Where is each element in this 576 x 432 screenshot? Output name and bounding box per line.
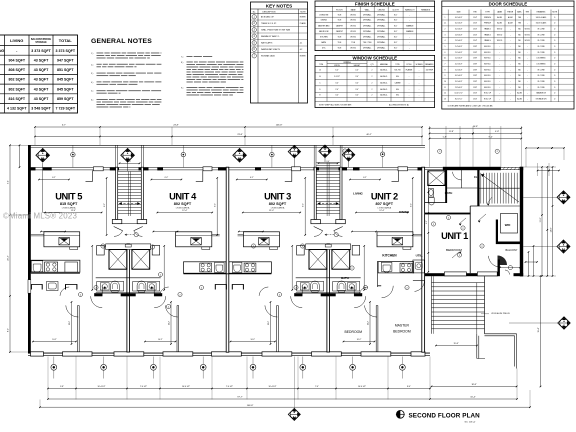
- svg-text:DRYWALL: DRYWALL: [377, 30, 385, 33]
- svg-text:MATL: MATL: [517, 11, 522, 14]
- svg-text:LIVING AREA: LIVING AREA: [62, 207, 76, 210]
- svg-text:10'-4 1/2": 10'-4 1/2": [269, 386, 277, 388]
- svg-text:14'-8": 14'-8": [551, 227, 553, 232]
- svg-text:WOOD: WOOD: [525, 34, 531, 36]
- svg-text:SECOND FLOOR PLAN: SECOND FLOOR PLAN: [409, 412, 481, 419]
- svg-text:INTERI: INTERI: [300, 56, 306, 58]
- unit1 leader arrows: [459, 218, 466, 224]
- kitchen island at x=243.4: [238, 232, 280, 250]
- svg-text:3'-0": 3'-0": [335, 82, 339, 84]
- plumbing blockout between showers: [125, 244, 131, 247]
- svg-text:DESCRIPTION: DESCRIPTION: [263, 11, 277, 13]
- svg-text:3 548 SQFT: 3 548 SQFT: [31, 107, 51, 111]
- vanity counters with sinks and toilets: [296, 277, 361, 279]
- svg-text:UNIT 4: UNIT 4: [169, 192, 197, 202]
- svg-text:TOTAL: TOTAL: [59, 38, 73, 43]
- svg-text:W. CORE: W. CORE: [537, 34, 545, 36]
- svg-text:BATH: BATH: [445, 191, 453, 195]
- svg-text:FINISH SCHEDULE: FINISH SCHEDULE: [355, 1, 395, 6]
- svg-text:3'-0": 3'-0": [355, 95, 359, 97]
- section marker at (127.6,155.2): [121, 148, 135, 162]
- balcony door dark fan: [498, 256, 508, 266]
- bedroom partition walls with door arcs: [60, 287, 378, 352]
- window schedule table: [315, 55, 435, 107]
- small dims above unit1 right: [526, 147, 538, 149]
- svg-text:845 SQFT: 845 SQFT: [57, 78, 74, 82]
- keynote circle 4: [252, 34, 256, 38]
- left exterior wall with window: [28, 145, 31, 279]
- unit 5 kitchen counters: [31, 260, 80, 289]
- svg-text:SCREEN: SCREEN: [416, 64, 424, 66]
- tick cluster at unit1 top right corner: [538, 170, 549, 172]
- tiny dims beside core: [291, 246, 293, 290]
- svg-text:8'-0": 8'-0": [394, 31, 398, 33]
- svg-text:8.): 8.): [181, 62, 184, 64]
- svg-text:23'-8": 23'-8": [237, 134, 243, 136]
- bottom porch edge with column footers: [28, 351, 430, 353]
- svg-text:1 3/8": 1 3/8": [473, 87, 478, 89]
- svg-text:13: 13: [444, 99, 446, 101]
- shower boxes: [109, 250, 127, 270]
- keynote circle 2: [438, 149, 442, 153]
- balcony: [498, 260, 500, 277]
- svg-text:2'-8"x6'-8": 2'-8"x6'-8": [455, 87, 463, 89]
- svg-text:23'-8": 23'-8": [173, 125, 179, 127]
- keynote circle 2: [158, 272, 162, 276]
- section marker at (348.6,154.8): [342, 149, 354, 161]
- svg-text:5'-8": 5'-8": [443, 136, 447, 138]
- svg-text:BI-FOLD: BI-FOLD: [484, 52, 491, 54]
- svg-text:JAMB: JAMB: [497, 11, 503, 14]
- keynote circle 2: [150, 245, 154, 249]
- svg-text:4-1: 4-1: [300, 43, 303, 45]
- section marker at (563.5,246.5): [557, 240, 570, 253]
- u3 range: [244, 263, 256, 272]
- porch column circle marker: [72, 146, 74, 168]
- svg-text:43 SQFT: 43 SQFT: [34, 68, 49, 72]
- svg-text:W. CORE: W. CORE: [537, 46, 545, 48]
- svg-text:8'-4": 8'-4": [407, 386, 411, 388]
- white sill bars on top wall: [93, 167, 103, 171]
- svg-text:MASTER: MASTER: [395, 324, 410, 328]
- keynote circle 2: [101, 244, 105, 248]
- keynote circle 2: [461, 226, 465, 230]
- svg-text:DOORS ARE HURRICANE 4 CODE CAT: DOORS ARE HURRICANE 4 CODE CAT. 1 HO-305…: [448, 104, 493, 107]
- center party wall (double line): [127, 244, 130, 352]
- svg-text:SGL: SGL: [396, 95, 399, 97]
- right dimension lines for unit1: [523, 166, 556, 387]
- keynote circle 2: [350, 266, 354, 270]
- svg-text:8'-0": 8'-0": [394, 42, 398, 44]
- vanity counters with sinks and toilets: [96, 277, 161, 279]
- center party wall (double line): [327, 244, 330, 352]
- svg-text:FLOOR: FLOOR: [336, 9, 343, 11]
- svg-text:BI-FOLD: BI-FOLD: [484, 46, 491, 48]
- column footers at bottom: [31, 352, 44, 356]
- svg-text:1 3/4": 1 3/4": [473, 29, 478, 31]
- keynote circle 2: [300, 244, 304, 248]
- door stubs below kitchens: [214, 284, 216, 289]
- svg-text:3'-0"x6'-8": 3'-0"x6'-8": [455, 29, 463, 31]
- unit1 bottom wall: [425, 273, 498, 276]
- svg-text:11: 11: [444, 87, 446, 89]
- svg-text:9: 9: [445, 75, 446, 77]
- svg-text:815 SQFT: 815 SQFT: [60, 202, 78, 206]
- left dimension lines: [8, 145, 28, 353]
- svg-text:802 SQFT: 802 SQFT: [8, 78, 25, 82]
- unit1 closet CL: [461, 170, 463, 188]
- keynote circle 7: [252, 54, 256, 58]
- svg-text:ROLL UP: ROLL UP: [484, 93, 491, 95]
- svg-text:3'-0": 3'-0": [355, 89, 359, 91]
- svg-text:12'-4": 12'-4": [182, 210, 187, 212]
- svg-text:947 SQFT: 947 SQFT: [57, 58, 74, 62]
- svg-text:WOOD: WOOD: [350, 25, 356, 27]
- svg-text:3'-6": 3'-6": [326, 161, 330, 163]
- keynote circle 2: [78, 292, 82, 296]
- svg-text:REMARKS: REMARKS: [537, 11, 546, 14]
- svg-text:DRYWALL: DRYWALL: [363, 24, 371, 27]
- svg-text:DRYWALL: DRYWALL: [363, 13, 371, 16]
- svg-text:8'-0": 8'-0": [394, 20, 398, 22]
- keynote circle 2: [251, 244, 255, 248]
- keynote circle 2: [363, 285, 367, 289]
- svg-text:808 SQFT: 808 SQFT: [8, 68, 25, 72]
- svg-text:BALCONY: BALCONY: [506, 249, 518, 252]
- svg-text:CARPET: CARPET: [336, 30, 344, 33]
- svg-text:802 SQFT: 802 SQFT: [174, 202, 192, 206]
- svg-text:2'-8"x6'-8": 2'-8"x6'-8": [455, 34, 463, 36]
- svg-text:WOOD: WOOD: [497, 34, 503, 36]
- bath band bottom wall: [94, 293, 102, 296]
- top porch edge double line: [28, 144, 425, 146]
- svg-text:GENERAL NOTES: GENERAL NOTES: [91, 38, 152, 45]
- kitchen island at x=175.6: [176, 232, 220, 250]
- svg-text:3'-0"x6'-8": 3'-0"x6'-8": [455, 81, 463, 83]
- svg-text:1 3/4": 1 3/4": [473, 23, 478, 25]
- svg-text:6'-0"x6'-8": 6'-0"x6'-8": [455, 23, 463, 25]
- svg-text:845 SQFT: 845 SQFT: [57, 87, 74, 91]
- keynote circle 2: [446, 215, 450, 219]
- svg-text:W. CORE: W. CORE: [537, 40, 545, 42]
- svg-text:1 3/8": 1 3/8": [473, 46, 478, 48]
- general notes block: [91, 38, 243, 107]
- svg-text:18'-8": 18'-8": [471, 384, 476, 386]
- shower boxes: [309, 250, 327, 270]
- svg-text:WAT SCAFTS: WAT SCAFTS: [261, 42, 273, 45]
- unit 2 kitchen + util: [378, 254, 425, 298]
- svg-text:PLANS: PLANS: [300, 22, 307, 25]
- svg-text:MASTER BED: MASTER BED: [318, 24, 330, 27]
- svg-text:CLG HT: CLG HT: [392, 9, 399, 11]
- svg-text:1 3/4": 1 3/4": [473, 93, 478, 95]
- svg-text:1 3/4": 1 3/4": [473, 17, 478, 19]
- porch column circle marker: [182, 146, 184, 168]
- svg-text:4.): 4.): [91, 82, 94, 84]
- svg-text:1 3/8": 1 3/8": [473, 75, 478, 77]
- svg-text:KITCHEN: KITCHEN: [382, 254, 397, 258]
- section marker at (294.4,151.6): [288, 145, 300, 157]
- svg-text:2'-0"x6'-8": 2'-0"x6'-8": [455, 52, 463, 54]
- svg-text:4: 4: [445, 40, 446, 42]
- svg-text:9'-2": 9'-2": [104, 203, 106, 207]
- svg-text:6'-7": 6'-7": [62, 125, 66, 127]
- svg-text:11'-2": 11'-2": [69, 321, 71, 326]
- keynote circle 6: [252, 47, 256, 51]
- unit1 interior stair: [477, 170, 520, 206]
- bath core at cx=328.2: [291, 227, 366, 353]
- svg-text:6'-0"x6'-8": 6'-0"x6'-8": [455, 17, 463, 19]
- svg-text:W. CORE: W. CORE: [537, 29, 545, 31]
- svg-text:7 729 SQFT: 7 729 SQFT: [55, 107, 75, 111]
- unit 4/3 divider wall (double line): [226, 167, 229, 352]
- keynote circle with dashed leader: [134, 233, 138, 237]
- svg-text:2: 2: [372, 76, 373, 78]
- svg-text:AS NOASD. UF.: AS NOASD. UF.: [261, 16, 275, 19]
- svg-text:8'-0": 8'-0": [8, 328, 10, 332]
- svg-text:KITCHEN: KITCHEN: [320, 37, 328, 39]
- svg-text:DRYWALL: DRYWALL: [377, 47, 385, 50]
- unit 4/3 back-to-back kitchens: [184, 262, 272, 290]
- stairwell top inner dims: [319, 162, 338, 164]
- section marker at (239.6,155.2): [233, 148, 247, 162]
- svg-text:DRYWALL: DRYWALL: [363, 47, 371, 50]
- svg-text:2: 2: [372, 69, 373, 71]
- svg-text:LIVING AREA: LIVING AREA: [271, 207, 285, 210]
- svg-text:10'-2": 10'-2": [158, 339, 163, 341]
- svg-text:5'-8": 5'-8": [60, 386, 64, 388]
- svg-text:4'-8": 4'-8": [495, 131, 499, 133]
- svg-text:INTERI: INTERI: [300, 17, 306, 19]
- svg-text:BI-FOLD: BI-FOLD: [484, 69, 491, 71]
- svg-text:2: 2: [445, 29, 446, 31]
- keynote circle 2: [431, 222, 435, 226]
- svg-text:8'-0": 8'-0": [394, 48, 398, 50]
- svg-text:NG: NG: [0, 49, 4, 53]
- svg-text:8: 8: [445, 69, 446, 71]
- svg-text:3: 3: [445, 34, 446, 36]
- svg-text:43 SQFT: 43 SQFT: [34, 87, 49, 91]
- section marker at (294.3,414.4): [288, 408, 300, 420]
- keynote circle 1: [252, 15, 256, 19]
- svg-text:TRASS 30 C.S. ST.: TRASS 30 C.S. ST.: [261, 22, 277, 25]
- kitchen island at x=43.9: [31, 232, 80, 250]
- porch column circle marker: [271, 146, 273, 168]
- svg-text:9'-2": 9'-2": [303, 203, 305, 207]
- tiny dims beside core: [91, 246, 93, 290]
- svg-text:6: 6: [445, 52, 446, 54]
- bath entry doors from stair landing: [314, 227, 323, 231]
- unit 5 side fixture near left wall: [47, 282, 59, 291]
- svg-text:BEDROOM: BEDROOM: [393, 330, 411, 334]
- sink: [31, 261, 42, 272]
- svg-text:7'-4 1/2": 7'-4 1/2": [226, 386, 233, 388]
- hall/closet stub walls below top wall: [86, 170, 399, 181]
- svg-text:HEIGHT: HEIGHT: [354, 65, 360, 67]
- svg-text:WOOD ALUM. TRELLIS: WOOD ALUM. TRELLIS: [491, 312, 510, 315]
- svg-text:WOOD: WOOD: [350, 48, 356, 50]
- svg-text:DRYWALL: DRYWALL: [377, 13, 385, 16]
- svg-text:802 SQFT: 802 SQFT: [8, 87, 25, 91]
- interior stairwell at x 314.2-342.0: [311, 145, 345, 223]
- svg-text:10'-4 1/2": 10'-4 1/2": [358, 386, 366, 388]
- svg-text:BEDROOM: BEDROOM: [319, 31, 329, 33]
- svg-text:DRYWALL: DRYWALL: [363, 19, 371, 22]
- svg-text:2'-4"x6'-8": 2'-4"x6'-8": [455, 46, 463, 48]
- svg-text:UNIT 5: UNIT 5: [55, 192, 82, 202]
- svg-text:11'-2": 11'-2": [268, 321, 270, 326]
- keynote circle 5: [252, 41, 256, 45]
- svg-text:146'-8": 146'-8": [276, 125, 283, 127]
- svg-text:LIVING: LIVING: [10, 38, 23, 43]
- svg-text:1 3/8": 1 3/8": [473, 52, 478, 54]
- svg-text:802 SQFT: 802 SQFT: [269, 202, 287, 206]
- svg-text:SASWAS ST WAS T.O.: SASWAS ST WAS T.O.: [261, 35, 280, 38]
- unit 2 interior vertical dim string: [426, 171, 429, 273]
- svg-text:UNIT 2: UNIT 2: [371, 192, 398, 202]
- interior stairwell at x 115.6-143.4: [112, 145, 146, 223]
- svg-text:3'-0": 3'-0": [335, 95, 339, 97]
- svg-text:2.): 2.): [91, 64, 94, 66]
- svg-text:No.: No.: [253, 11, 256, 13]
- top dimension lines: [34, 125, 565, 176]
- svg-text:10'-4 1/2": 10'-4 1/2": [182, 386, 190, 388]
- bath entry doors from stair landing: [114, 227, 123, 231]
- svg-text:1 3/4": 1 3/4": [473, 40, 478, 42]
- svg-text:1: 1: [445, 17, 446, 19]
- svg-text:43 SQFT: 43 SQFT: [34, 58, 49, 62]
- svg-text:1.1: 1.1: [444, 23, 446, 25]
- svg-text:9'-2": 9'-2": [410, 203, 412, 207]
- keynote leader from diamond in unit 5: [42, 163, 44, 213]
- svg-text:BI-FOLD: BI-FOLD: [484, 75, 491, 77]
- svg-text:3 373 SQFT: 3 373 SQFT: [55, 49, 75, 53]
- svg-text:CARPET: CARPET: [336, 24, 344, 27]
- svg-text:4'-0": 4'-0": [355, 69, 359, 71]
- svg-text:CEILING: CEILING: [378, 9, 386, 11]
- svg-text:DRYWALL: DRYWALL: [363, 36, 371, 39]
- svg-text:W. CORE: W. CORE: [537, 69, 545, 71]
- u3 sink: [232, 262, 242, 272]
- section marker at (563.5,197.3): [557, 191, 570, 204]
- svg-text:DRYWALL: DRYWALL: [363, 30, 371, 33]
- svg-text:9'-2": 9'-2": [215, 203, 217, 207]
- keynote circle 2: [457, 253, 461, 257]
- svg-text:97'-7": 97'-7": [237, 397, 243, 399]
- svg-text:10'-4 1/2": 10'-4 1/2": [98, 386, 106, 388]
- svg-text:W. CORE: W. CORE: [537, 52, 545, 54]
- svg-text:BATH: BATH: [322, 41, 327, 44]
- keynote circle 2: [277, 292, 281, 296]
- svg-text:2'-6"x6'-8": 2'-6"x6'-8": [455, 40, 463, 42]
- svg-text:1 3/4": 1 3/4": [473, 99, 478, 101]
- section marker at (564.0,323.0): [558, 317, 570, 329]
- svg-text:B: B: [319, 76, 320, 78]
- svg-text:FRENCH: FRENCH: [484, 23, 492, 25]
- svg-text:DRYWALL: DRYWALL: [377, 24, 385, 27]
- util closet: [413, 260, 424, 273]
- svg-text:BASE: BASE: [351, 8, 357, 11]
- svg-text:2: 2: [372, 95, 373, 97]
- svg-text:W. CORE: W. CORE: [537, 87, 545, 89]
- unit1 bedroom top wall: [425, 213, 471, 215]
- svg-text:W/D: W/D: [505, 223, 511, 227]
- svg-text:2: 2: [372, 82, 373, 84]
- unit1 top dims: [430, 127, 522, 129]
- door schedule table: [442, 1, 574, 109]
- svg-text:4'-2": 4'-2": [426, 220, 428, 224]
- keynote circle 2: [480, 244, 484, 248]
- svg-text:2: 2: [372, 89, 373, 91]
- svg-text:6'-2": 6'-2": [165, 177, 169, 179]
- svg-text:6.1: 6.1: [444, 58, 446, 60]
- svg-text:4-2: 4-2: [300, 49, 303, 51]
- svg-text:BEDROOM: BEDROOM: [345, 330, 363, 334]
- svg-text:12'-4": 12'-4": [379, 210, 384, 212]
- keynote circle 2: [294, 285, 298, 289]
- svg-text:DRYWALL: DRYWALL: [377, 36, 385, 39]
- unit1 top wall with end windows: [443, 167, 501, 170]
- svg-text:10: 10: [444, 81, 446, 83]
- svg-text:1.): 1.): [91, 53, 94, 55]
- svg-text:DRYWALL: DRYWALL: [377, 19, 385, 22]
- svg-text:8'-0"x7'-0": 8'-0"x7'-0": [455, 99, 463, 101]
- svg-text:WOOD: WOOD: [525, 40, 531, 42]
- bedroom vertical dims: [32, 301, 375, 345]
- svg-text:WOOD: WOOD: [350, 37, 356, 39]
- svg-text:1 3/4": 1 3/4": [473, 34, 478, 36]
- svg-text:SGL: SGL: [396, 89, 399, 91]
- svg-text:LOUVERED: LOUVERED: [536, 64, 546, 66]
- keynote circle 2: [405, 285, 409, 289]
- svg-text:WASWS WAT SCAFTS: WASWS WAT SCAFTS: [261, 48, 281, 51]
- keynote circle 2: [199, 285, 203, 289]
- plumbing blockout between showers: [325, 244, 331, 247]
- interior dimension lines inside units: [38, 177, 413, 236]
- walkway rails: [485, 333, 517, 335]
- svg-text:OPENING: OPENING: [343, 62, 351, 64]
- svg-text:WOSWAS CASS: WOSWAS CASS: [261, 55, 276, 58]
- svg-text:BI-FOLD: BI-FOLD: [484, 81, 491, 83]
- svg-text:4'-0"x6'-8": 4'-0"x6'-8": [455, 64, 463, 66]
- svg-text:MARBLE: MARBLE: [406, 24, 414, 27]
- unit1 bottom wall footers: [444, 272, 466, 276]
- bath band bottom wall: [294, 293, 302, 296]
- svg-text:2'-0": 2'-0": [335, 89, 339, 91]
- svg-text:W. CORE: W. CORE: [537, 81, 545, 83]
- key notes table: [251, 2, 308, 103]
- svg-text:DOOR SCHEDULE: DOOR SCHEDULE: [489, 2, 528, 7]
- right stair vertical dim: [540, 276, 542, 387]
- svg-text:11'-2": 11'-2": [368, 321, 370, 326]
- svg-text:10'-2": 10'-2": [52, 339, 57, 341]
- svg-text:DRYWALL: DRYWALL: [377, 41, 385, 44]
- svg-text:6.): 6.): [91, 100, 94, 102]
- svg-text:BI-FOLD: BI-FOLD: [484, 87, 491, 89]
- top wall: continuous glazing lines with solid posts: [28, 167, 425, 169]
- keynote circle 2: [343, 149, 347, 153]
- balcony dim cluster: [500, 267, 520, 269]
- svg-text:3'-0": 3'-0": [355, 76, 359, 78]
- unit1 bath fixtures: [429, 189, 434, 198]
- fridge counter: [65, 262, 78, 272]
- section marker at (325.0,151.3): [319, 145, 331, 157]
- svg-text:BEDROOM: BEDROOM: [446, 248, 462, 252]
- keynote circle 2: [166, 304, 170, 308]
- svg-text:35'-4": 35'-4": [538, 327, 540, 332]
- svg-text:LOUVERED: LOUVERED: [536, 58, 546, 60]
- svg-text:851 SQFT: 851 SQFT: [57, 68, 74, 72]
